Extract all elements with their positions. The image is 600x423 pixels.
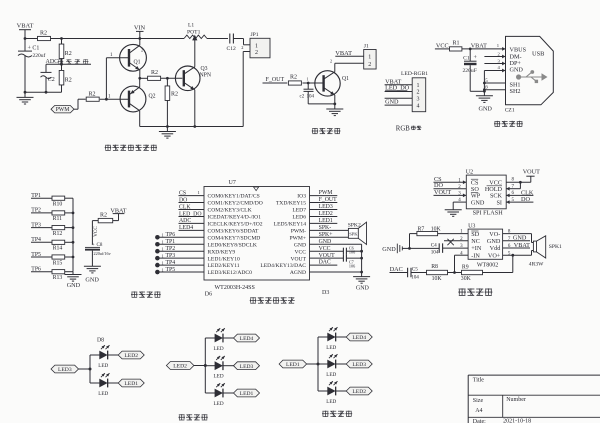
wire U7 right pin (F_OUT) (310, 202, 338, 204)
svg-text:U3: U3 (468, 224, 475, 230)
svg-text:SH2: SH2 (510, 88, 521, 95)
svg-text:LED4: LED4 (352, 335, 366, 341)
svg-text:2: 2 (417, 90, 420, 96)
svg-text:106: 106 (349, 250, 355, 255)
resistor R14 (52, 240, 65, 244)
svg-text:U2: U2 (466, 170, 473, 176)
svg-text:R2: R2 (89, 91, 96, 97)
wire U7 right pin (AGND) (310, 271, 362, 273)
wire GND (RGB) (385, 97, 413, 99)
wire U7 left pin 4 (LED_DO) (179, 215, 205, 217)
svg-text:PWM: PWM (319, 190, 333, 196)
svg-text:VIN: VIN (134, 25, 146, 32)
wire U7 right pin (GND) (310, 243, 362, 245)
test point TP1 (155, 242, 160, 247)
ground (touch) (72, 272, 74, 275)
wire U7 left pin 6 (LED4) (179, 229, 205, 231)
flag LED2 (166, 362, 194, 370)
svg-text:LED0/KEY8/SDCLK: LED0/KEY8/SDCLK (208, 242, 257, 248)
svg-text:LED5/KEY14: LED5/KEY14 (274, 222, 307, 228)
svg-text:1: 1 (162, 253, 164, 258)
svg-text:10K: 10K (431, 227, 442, 233)
svg-text:GND: GND (319, 239, 332, 245)
svg-text:C1: C1 (463, 56, 470, 62)
resistor R1 (450, 47, 462, 51)
svg-text:LED: LED (98, 363, 108, 369)
capacitor C6 (342, 248, 344, 255)
test point TP5 (155, 270, 160, 275)
wire U2 CS (434, 181, 467, 183)
svg-text:TP3: TP3 (31, 222, 41, 228)
svg-text:R2: R2 (40, 31, 47, 37)
wire U7 left pin 12 (TP5) (157, 271, 204, 273)
svg-text:GND: GND (487, 238, 501, 245)
svg-text:2: 2 (368, 62, 371, 68)
flag PWM (51, 106, 74, 113)
svg-text:3: 3 (330, 91, 332, 96)
wire U7 right pin (LED1) (310, 222, 338, 224)
ground (touch cap) (84, 265, 101, 267)
node fb (448, 272, 462, 274)
svg-text:ADC: ADC (46, 59, 59, 65)
svg-text:TP5: TP5 (31, 252, 41, 258)
USB logo (516, 74, 521, 79)
wire led bus (204, 338, 206, 393)
svg-text:LED2: LED2 (124, 353, 138, 359)
svg-text:C12: C12 (227, 46, 237, 52)
svg-text:TP3: TP3 (166, 253, 176, 259)
svg-text:Q3: Q3 (201, 66, 208, 72)
ground (U2) (445, 209, 462, 211)
svg-text:USB: USB (532, 50, 544, 57)
wire U7 left pin 9 (TP2) (157, 250, 204, 252)
wire TP6 (31, 271, 52, 273)
resistor R2 (touch) (113, 220, 119, 222)
svg-text:GND: GND (85, 277, 99, 284)
resistor R11 (52, 211, 65, 215)
caption amplifier circuit (459, 288, 466, 290)
node led bus (204, 364, 207, 367)
ground (fan) (334, 104, 336, 109)
svg-text:-IN: -IN (471, 252, 480, 259)
svg-text:2: 2 (141, 48, 143, 53)
svg-text:1: 1 (162, 233, 164, 238)
svg-text:LED: LED (214, 346, 224, 352)
ground (U7) (353, 276, 370, 278)
ground (power) (476, 95, 493, 97)
svg-text:4: 4 (417, 103, 420, 109)
wire TP1 (31, 197, 52, 199)
svg-text:COM3/KEY6/SDDAT: COM3/KEY6/SDDAT (208, 228, 260, 234)
resistor R7 10K (410, 233, 417, 235)
node VIN (138, 37, 141, 40)
wire to Q2 base (100, 98, 129, 100)
transistor Q2 (PNP) (120, 86, 146, 112)
svg-text:1: 1 (368, 55, 371, 61)
svg-text:SPK1: SPK1 (549, 244, 562, 250)
flag LED4 (346, 333, 372, 341)
wire DM- stub (484, 56, 505, 58)
svg-text:1: 1 (162, 260, 164, 265)
capacitor C1 (power) 220uF (469, 49, 471, 61)
wire GND pin (484, 70, 505, 72)
svg-text:D6: D6 (205, 292, 212, 298)
capacitor C4 104 (410, 247, 440, 249)
svg-text:NC: NC (471, 238, 480, 245)
node led bus (317, 363, 320, 366)
svg-text:LED-RGB1: LED-RGB1 (401, 71, 428, 77)
svg-text:DAC: DAC (319, 260, 331, 266)
svg-text:104: 104 (411, 274, 419, 280)
wire JP1 pin2 (243, 51, 250, 53)
svg-text:Vdd: Vdd (490, 245, 502, 252)
svg-text:IO3: IO3 (297, 194, 306, 200)
LED diode to LED4 (318, 336, 328, 338)
svg-text:Q1: Q1 (134, 60, 141, 66)
flag LED2 (346, 387, 372, 395)
svg-text:+IN: +IN (471, 245, 482, 252)
svg-text:WT8002: WT8002 (477, 263, 498, 269)
svg-text:1: 1 (417, 83, 420, 89)
svg-text:A4: A4 (475, 408, 482, 414)
ground (left) (24, 92, 26, 97)
svg-text:1: 1 (162, 246, 164, 251)
svg-text:LED1: LED1 (124, 381, 138, 387)
wire U7 left pin 5 (ADC) (179, 222, 205, 224)
svg-text:VO+: VO+ (488, 252, 501, 259)
svg-text:TP2: TP2 (166, 246, 176, 252)
svg-text:J1: J1 (364, 44, 369, 50)
svg-text:LED: LED (214, 401, 224, 407)
svg-text:LED4: LED4 (240, 336, 254, 342)
svg-text:TP1: TP1 (166, 239, 176, 245)
wire emitter node to R2 (140, 77, 148, 79)
svg-text:R2: R2 (290, 75, 297, 81)
svg-text:Title: Title (473, 378, 484, 384)
svg-text:AGND: AGND (290, 270, 306, 276)
resistor R13 (52, 270, 65, 274)
svg-text:PWM: PWM (56, 107, 70, 113)
svg-text:R2: R2 (151, 70, 158, 76)
svg-text:Q1: Q1 (342, 76, 349, 82)
svg-text:GND: GND (356, 286, 370, 292)
svg-text:WT2003H-24SS: WT2003H-24SS (215, 285, 255, 291)
svg-text:GND: GND (385, 99, 399, 106)
wire U7 left pin 11 (TP4) (157, 264, 204, 266)
svg-text:CZ1: CZ1 (505, 108, 515, 114)
wire U7 left pin 2 (DO) (179, 202, 205, 204)
svg-text:C5: C5 (412, 267, 418, 273)
resistor R2 (Q3 bias) (166, 78, 168, 86)
wire PWM (74, 108, 78, 110)
svg-text:TP4: TP4 (166, 260, 176, 266)
capacitor C5 104 (407, 268, 409, 278)
resistor R2 (divider lower) (61, 64, 63, 70)
node ADC / wire (46, 63, 91, 65)
svg-text:F_OUT: F_OUT (266, 77, 285, 83)
svg-text:VOUT: VOUT (434, 189, 451, 196)
svg-text:DO: DO (179, 197, 187, 203)
node led bus (89, 368, 92, 371)
wire U7 left pin 3 (CLK) (179, 209, 205, 211)
svg-text:VOUT: VOUT (319, 253, 336, 259)
wire U7 right pin (VCC) (310, 250, 344, 252)
svg-text:VBAT: VBAT (17, 23, 34, 30)
svg-text:c2: c2 (300, 95, 305, 100)
caption volume indicator (179, 414, 185, 416)
caption timer indicator (322, 410, 328, 412)
node Q3 base (166, 77, 169, 80)
svg-text:TP2: TP2 (31, 208, 41, 214)
svg-text:106: 106 (349, 264, 355, 269)
svg-text:SPK-: SPK- (319, 225, 332, 231)
svg-text:GND: GND (67, 282, 81, 289)
resistor R12 (52, 226, 65, 230)
svg-text:VO-: VO- (489, 231, 500, 238)
flag LED1 (118, 379, 144, 387)
node fan emitter (333, 103, 336, 106)
flag LED1 (279, 360, 307, 368)
svg-text:VCC: VCC (93, 226, 99, 237)
svg-text:2021-10-18: 2021-10-18 (503, 419, 531, 423)
wire pin5 VO+ (503, 254, 532, 256)
svg-text:R8: R8 (431, 264, 438, 270)
svg-text:TP6: TP6 (166, 232, 176, 238)
svg-text:LED1: LED1 (319, 218, 333, 224)
flag LED3 (346, 360, 372, 368)
svg-text:ADC: ADC (179, 218, 191, 224)
svg-text:10K: 10K (432, 276, 443, 282)
svg-text:COM1/KEY2/CMD/DO: COM1/KEY2/CMD/DO (208, 201, 263, 207)
svg-text:Size: Size (473, 398, 484, 404)
wire U7 right pin (SPK-) (310, 229, 349, 231)
wire U7 right pin (PWM) (310, 195, 338, 197)
test point TP2 (155, 249, 160, 254)
wire to JP1 (233, 38, 243, 40)
svg-text:SI: SI (496, 199, 502, 206)
svg-text:CS: CS (179, 190, 186, 196)
svg-text:LED7: LED7 (292, 208, 306, 214)
title block frame (468, 374, 600, 376)
svg-text:RGB: RGB (396, 126, 410, 133)
LED diode to LED4 (205, 337, 215, 339)
svg-text:TP5: TP5 (166, 267, 176, 273)
capacitor C2 (45, 64, 47, 72)
svg-text:30K: 30K (461, 276, 472, 282)
wire to Q1 base (303, 82, 324, 84)
svg-text:U7: U7 (229, 180, 236, 186)
svg-text:Number: Number (506, 397, 526, 403)
wire VBAT (RGB) (385, 84, 413, 86)
svg-text:VCC: VCC (319, 246, 331, 252)
svg-text:LED6: LED6 (292, 215, 306, 221)
svg-text:R1: R1 (453, 41, 460, 47)
svg-text:VOUT: VOUT (290, 256, 306, 262)
wire to C12 (207, 38, 228, 40)
test point TP6 (155, 235, 160, 240)
svg-text:1: 1 (255, 43, 258, 49)
svg-text:LED1: LED1 (240, 391, 254, 397)
wire led bus (317, 337, 319, 391)
connector CZ1 USB (506, 36, 554, 104)
LED diode to LED2 (90, 354, 100, 356)
svg-text:LED: LED (326, 399, 336, 405)
wire U7 right pin (DAC) (310, 264, 338, 266)
svg-text:ICECLK/KEY5/D+/IO2: ICECLK/KEY5/D+/IO2 (208, 222, 263, 228)
svg-text:Q2: Q2 (149, 94, 156, 100)
wire TP5 (31, 256, 52, 258)
caption ultrasonic atomizer driver (105, 144, 111, 146)
speaker SPK1 (533, 241, 536, 252)
svg-text:F_OUT: F_OUT (319, 197, 337, 203)
svg-text:D3: D3 (322, 290, 329, 296)
capacitor C2 (fan) (307, 83, 309, 89)
wire U2 pin8 VCC (506, 181, 531, 183)
wire U2 GND (453, 201, 466, 203)
svg-text:PWM+: PWM+ (289, 235, 306, 241)
svg-text:CLK: CLK (179, 204, 191, 210)
svg-text:R2: R2 (65, 78, 72, 84)
svg-text:GND: GND (513, 235, 527, 242)
svg-text:GND: GND (471, 199, 485, 206)
svg-text:TP1: TP1 (31, 193, 41, 199)
svg-text:NPN: NPN (200, 73, 212, 79)
svg-text:2: 2 (255, 50, 258, 56)
wire U7 right pin (SPK+) (310, 236, 349, 238)
wire TP3 (31, 227, 52, 229)
svg-text:R10: R10 (53, 202, 63, 208)
LED diode to LED1 (205, 392, 215, 394)
svg-text:R7: R7 (418, 227, 425, 233)
svg-text:220uf: 220uf (33, 52, 46, 59)
svg-text:VOUT: VOUT (523, 169, 540, 176)
wire U2 pin7 HOLD (519, 182, 521, 188)
svg-text:2: 2 (241, 45, 243, 50)
svg-text:3: 3 (417, 97, 420, 103)
caption main music chip (250, 297, 256, 299)
wire bottom rail (140, 126, 244, 128)
flag LED3 (51, 365, 79, 373)
resistor R2 (PWM) (86, 97, 99, 101)
svg-text:LED3: LED3 (240, 364, 254, 370)
flag LED2 (118, 351, 144, 359)
svg-text:LED: LED (214, 374, 224, 380)
svg-text:ICEDAT/KEY4/D-/IO1: ICEDAT/KEY4/D-/IO1 (208, 215, 262, 221)
svg-text:2: 2 (330, 59, 332, 64)
transistor Q1 (120, 44, 147, 71)
svg-text:GND: GND (479, 106, 493, 113)
svg-text:PWM-: PWM- (291, 228, 306, 234)
LED diode to LED1 (90, 382, 100, 384)
svg-text:COM0/KEY1/DAT/CS: COM0/KEY1/DAT/CS (208, 194, 260, 200)
resistor R8 10K (411, 272, 427, 274)
wire VCC vertical (92, 220, 98, 222)
svg-text:R2: R2 (65, 51, 72, 57)
svg-text:TXD/KEY15: TXD/KEY15 (276, 201, 306, 207)
node push-pull mid (138, 77, 141, 80)
svg-text:1: 1 (162, 267, 164, 272)
svg-text:LED1/KEY10: LED1/KEY10 (208, 256, 241, 262)
wire U7 left pin 7 (TP6) (157, 236, 204, 238)
svg-text:TP6: TP6 (31, 267, 41, 273)
wire pin6 VBAT label (503, 247, 530, 249)
caption touch switch (131, 291, 137, 293)
wire U2 pin5 SI DO (506, 201, 533, 203)
svg-text:LED2/KEY11: LED2/KEY11 (208, 263, 240, 269)
wire LED_DO (RGB) (385, 91, 413, 93)
LED diode to LED3 (205, 365, 215, 367)
svg-text:1: 1 (307, 76, 309, 81)
svg-text:R11: R11 (53, 216, 63, 222)
wire U7 right pin (LED2) (310, 215, 338, 217)
flag LED3 (234, 362, 260, 370)
svg-text:R15: R15 (53, 260, 63, 266)
node amp gnd (408, 247, 411, 250)
resistor R15 (52, 255, 65, 259)
test point TP4 (155, 263, 160, 268)
wire R9 to VO+ (483, 272, 513, 274)
wire pin7 GND label (503, 240, 530, 242)
svg-text:LED3: LED3 (58, 367, 72, 373)
svg-text:LED: LED (98, 391, 108, 397)
flag LED1 (234, 389, 260, 397)
svg-text:VBAT: VBAT (514, 242, 530, 249)
wire U7 right pin (LED3) (310, 209, 338, 211)
svg-text:GND: GND (294, 242, 306, 248)
ground (atomizer) (166, 127, 168, 132)
resistor R10 (52, 196, 65, 200)
svg-text:LED3: LED3 (352, 362, 366, 368)
svg-text:LED2: LED2 (173, 364, 187, 370)
LED diode to LED2 (318, 390, 328, 392)
transistor Q3 NPN (175, 66, 200, 91)
transistor Q1 (fan) NPN (315, 71, 340, 96)
svg-text:4R3W: 4R3W (529, 262, 544, 268)
svg-text:LED: LED (326, 345, 336, 351)
svg-text:LED: LED (326, 372, 336, 378)
wire pin4 (RGB) (385, 104, 413, 106)
wire DP+ stub (484, 63, 505, 65)
power flag VOUT (U2) (530, 176, 532, 182)
svg-text:COM2/KEY3/CLK: COM2/KEY3/CLK (208, 208, 252, 214)
svg-text:R2: R2 (100, 212, 107, 218)
svg-text:L1: L1 (188, 23, 194, 29)
wire led bus (89, 355, 91, 383)
svg-text:220uF: 220uF (463, 68, 477, 74)
svg-text:LED4/KEY13/DAC: LED4/KEY13/DAC (260, 263, 306, 269)
svg-text:LED4: LED4 (179, 225, 193, 231)
wire touch bus (72, 198, 74, 272)
wire TP2 (31, 212, 52, 214)
svg-text:+ C1: + C1 (28, 45, 40, 51)
resistor R9 30K (462, 270, 483, 274)
svg-text:104: 104 (431, 249, 439, 255)
wire SH1 (484, 82, 505, 84)
flag LED4 (234, 334, 260, 342)
wire U7 right pin (VOUT) (310, 257, 344, 259)
wire TP4 (31, 241, 52, 243)
wire VBAT node (462, 48, 506, 50)
svg-text:RXD/KEY9: RXD/KEY9 (208, 249, 236, 255)
svg-text:GND: GND (382, 246, 396, 253)
capacitor C12 (229, 34, 231, 44)
svg-text:COM4/KEY7/SDCMD: COM4/KEY7/SDCMD (208, 235, 261, 241)
wire U7 left pin 10 (TP3) (157, 257, 204, 259)
wire SH2 (484, 89, 505, 91)
svg-text:LED3/KE12/ADC0: LED3/KE12/ADC0 (208, 270, 253, 276)
svg-text:R12: R12 (53, 231, 63, 237)
resistor R2 (divider upper) (61, 39, 63, 45)
